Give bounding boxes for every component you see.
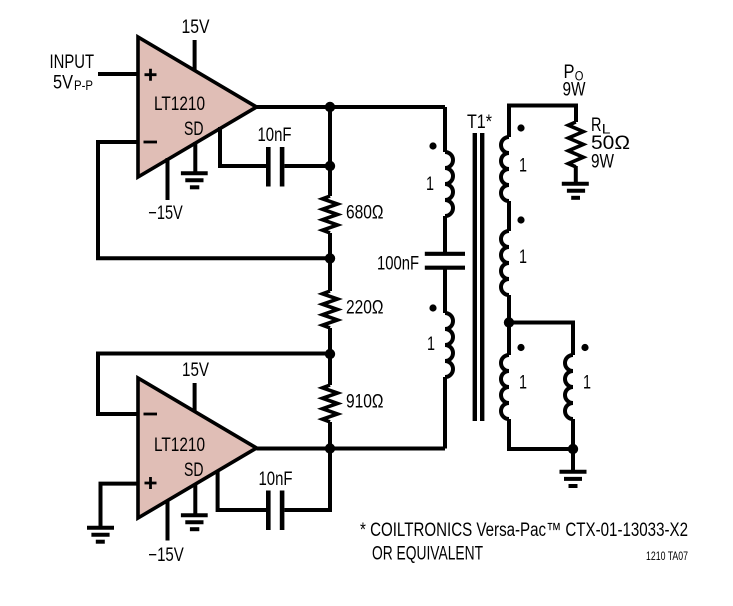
- node secondary ground junction: [568, 444, 578, 454]
- wire U1 to capacitor C1: [220, 127, 266, 166]
- svg-text:1: 1: [519, 373, 527, 394]
- wire U1 output: [257, 105, 446, 109]
- node U2 output junction: [325, 443, 335, 453]
- wire R1 to R2: [328, 233, 332, 291]
- wire U2 SD to ground: [193, 484, 197, 515]
- wire +15V to U1: [193, 40, 197, 72]
- svg-text:LT1210: LT1210: [154, 435, 205, 456]
- node U1 output junction: [325, 102, 335, 112]
- svg-text:10nF: 10nF: [258, 125, 292, 146]
- ground RL: [562, 184, 589, 198]
- wire P1 to C3: [443, 216, 447, 252]
- svg-text:5V: 5V: [53, 73, 73, 94]
- phase dot P2: [429, 304, 436, 311]
- wire feedback U1: [98, 142, 330, 258]
- wire R3 to output node: [328, 422, 332, 449]
- wire input to U1 +: [98, 72, 140, 76]
- label PO 9W: [563, 62, 586, 101]
- wire C2 to output node: [284, 449, 330, 511]
- svg-text:10nF: 10nF: [259, 469, 293, 490]
- wire -15V U2: [166, 500, 170, 541]
- svg-text:−15V: −15V: [148, 203, 183, 224]
- svg-text:9W: 9W: [591, 152, 614, 173]
- capacitor C1 10nF: [258, 125, 292, 187]
- svg-text:SD: SD: [184, 460, 204, 481]
- wire +15V to U2: [193, 383, 197, 412]
- svg-text:1: 1: [426, 174, 434, 195]
- T1 secondary winding S2: [501, 231, 509, 295]
- wire U2 output: [257, 447, 446, 451]
- wire to secondary ground: [571, 449, 575, 470]
- svg-text:SD: SD: [184, 119, 204, 140]
- phase dot S3: [517, 344, 524, 351]
- wire to T1 primary P1: [443, 107, 447, 152]
- svg-text:1: 1: [583, 373, 591, 394]
- wire P2 to U2 output: [443, 377, 447, 449]
- wire U1 SD to ground: [193, 142, 197, 173]
- capacitor C2 10nF: [259, 469, 293, 530]
- svg-text:T1*: T1*: [467, 112, 493, 133]
- ground U1 SD: [181, 173, 208, 187]
- phase dot S1: [517, 124, 524, 131]
- wire S2 to tap junction: [507, 295, 511, 355]
- phase dot P1: [429, 142, 436, 149]
- svg-text:OR EQUIVALENT: OR EQUIVALENT: [372, 544, 483, 565]
- resistor R1 680: [323, 196, 384, 233]
- wire node column upper: [328, 107, 332, 196]
- wire secondary bottom: [509, 419, 573, 449]
- svg-text:15V: 15V: [182, 360, 209, 381]
- svg-text:1210 TA07: 1210 TA07: [646, 549, 688, 563]
- phase dot S4: [581, 344, 588, 351]
- wire C3 to P2: [443, 269, 447, 313]
- transformer T1 core: [475, 133, 482, 421]
- svg-text:910Ω: 910Ω: [346, 392, 384, 413]
- op-amp U2 LT1210: [138, 378, 257, 518]
- svg-text:* COILTRONICS Versa-Pac™ CTX-0: * COILTRONICS Versa-Pac™ CTX-01-13033-X2: [360, 520, 688, 541]
- node C1 junction: [325, 161, 335, 171]
- svg-text:9W: 9W: [563, 80, 586, 101]
- svg-text:LT1210: LT1210: [154, 94, 205, 115]
- svg-text:1: 1: [519, 247, 527, 268]
- svg-text:1: 1: [427, 334, 435, 355]
- label INPUT 5VP-P: [50, 52, 95, 94]
- wire secondary top: [509, 106, 576, 138]
- phase dot S2: [517, 216, 524, 223]
- op-amp U1 LT1210: [138, 37, 257, 177]
- ground U2 SD: [181, 515, 208, 529]
- svg-text:15V: 15V: [182, 17, 210, 38]
- ground T1 secondary: [560, 472, 587, 486]
- wire feedback U2: [98, 354, 330, 415]
- T1 primary winding P1: [445, 152, 453, 216]
- resistor RL 50 ohm: [568, 115, 630, 173]
- node feedback U2 junction: [325, 349, 335, 359]
- wire U2 to capacitor C2: [218, 471, 266, 510]
- svg-text:P-P: P-P: [74, 78, 93, 93]
- svg-text:100nF: 100nF: [377, 254, 419, 275]
- note COILTRONICS: [360, 520, 688, 565]
- T1 primary winding P2: [445, 313, 453, 377]
- T1 secondary winding S3: [501, 355, 509, 419]
- wire C1 to node: [284, 164, 330, 168]
- svg-text:680Ω: 680Ω: [346, 203, 384, 224]
- svg-text:220Ω: 220Ω: [346, 298, 384, 319]
- wire R2 to R3: [328, 328, 332, 385]
- T1 secondary winding S1: [501, 137, 509, 201]
- svg-text:1: 1: [519, 156, 527, 177]
- wire U2 + input to ground: [101, 484, 139, 528]
- ground U2 + input: [87, 528, 114, 542]
- svg-text:−15V: −15V: [148, 545, 184, 566]
- wire S1 to S2: [507, 201, 511, 231]
- wire RL to ground: [574, 166, 578, 184]
- node feedback U1 junction: [325, 253, 335, 263]
- node secondary tap: [504, 317, 514, 327]
- wire -15V U1: [166, 158, 170, 200]
- T1 secondary winding S4: [565, 355, 573, 419]
- capacitor C3 100nF: [377, 254, 465, 275]
- svg-text:INPUT: INPUT: [50, 52, 95, 73]
- resistor R2 220: [323, 291, 384, 328]
- resistor R3 910: [323, 385, 384, 422]
- wire tap to S4: [509, 323, 573, 356]
